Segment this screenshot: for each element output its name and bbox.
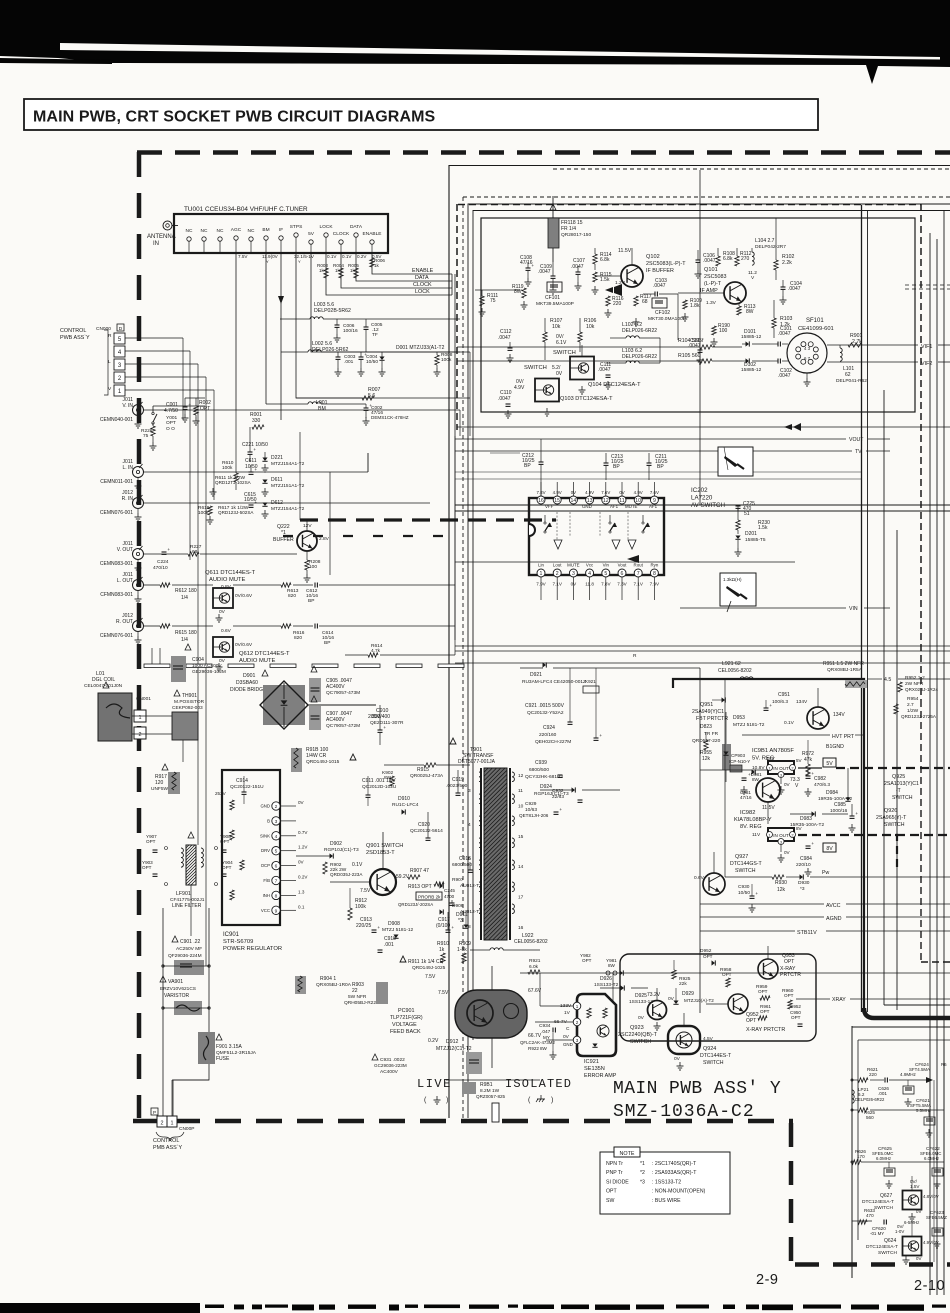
svg-text:.0047: .0047 xyxy=(498,396,511,402)
svg-text:DELP026-6R22: DELP026-6R22 xyxy=(622,354,657,360)
svg-text:BM: BM xyxy=(262,227,269,233)
svg-text:R. IN: R. IN xyxy=(122,496,134,502)
svg-text:*3: *3 xyxy=(640,1179,645,1185)
svg-text:C904: C904 xyxy=(192,657,204,663)
resistor R915 QR0025J-473A xyxy=(384,763,470,779)
svg-text:FUSE: FUSE xyxy=(216,1056,230,1062)
resistor R119 8W xyxy=(512,284,528,309)
diode D984 1SR35-100A-T2 xyxy=(818,768,852,802)
inductor L102 6.2 DELP026-6R22 xyxy=(610,322,660,338)
svg-text:Vin: Vin xyxy=(603,563,610,568)
capacitor C103 .0047 xyxy=(643,278,678,297)
svg-text:C985: C985 xyxy=(834,802,846,808)
resistor R109 1.8k xyxy=(682,298,703,321)
svg-text:7.5V: 7.5V xyxy=(360,888,371,894)
resistor R930 12k xyxy=(725,875,787,893)
diode D101 15885-12 xyxy=(741,329,770,347)
resistor R961 OPT C950 OPT xyxy=(758,1004,803,1026)
svg-text:IC921: IC921 xyxy=(584,1059,599,1065)
svg-text:4.9V: 4.9V xyxy=(634,490,643,495)
svg-text:BP: BP xyxy=(613,464,620,470)
diode D912 MTZJ12(C1-T2 xyxy=(436,1038,492,1068)
interconnect frame solid outer xyxy=(449,166,950,1119)
svg-text:+: + xyxy=(254,500,257,505)
svg-text:+: + xyxy=(769,703,772,708)
transistor Q101 2SC5083 IF AMP xyxy=(678,267,757,306)
resistor R228 100 xyxy=(304,559,321,582)
svg-text:R6: R6 xyxy=(941,1062,947,1067)
svg-text:-T: -T xyxy=(896,788,901,794)
capacitor C614 10/16 BP xyxy=(315,624,345,647)
svg-text:Vout: Vout xyxy=(618,563,628,568)
diode D981 8W xyxy=(740,769,762,800)
svg-text:B: B xyxy=(267,818,270,823)
wire video bus pair xyxy=(455,505,950,511)
resistor R114 6.8k xyxy=(593,248,612,270)
svg-text:IC202: IC202 xyxy=(691,487,708,494)
svg-text:.001: .001 xyxy=(344,359,354,365)
svg-text:17: 17 xyxy=(518,895,524,901)
svg-text:D908: D908 xyxy=(388,921,400,927)
svg-text:0.2V: 0.2V xyxy=(357,254,367,259)
svg-text:OPT: OPT xyxy=(746,1018,756,1024)
connector CN001 xyxy=(134,696,151,739)
resistor R110 100 xyxy=(711,323,731,346)
svg-text:1SS133-T2: 1SS133-T2 xyxy=(594,982,619,988)
svg-text:+: + xyxy=(811,841,814,846)
svg-text:OCP: OCP xyxy=(261,863,270,868)
svg-text:1.5V: 1.5V xyxy=(910,1184,920,1189)
resistor R911 1k 1/4 CR QRD149J-1025 xyxy=(400,956,446,980)
svg-text:0V: 0V xyxy=(298,800,305,805)
resistor R611 1k 1/2W QRD12TJ-102SA xyxy=(210,475,252,496)
svg-text:0.1: 0.1 xyxy=(298,904,305,909)
svg-text:2: 2 xyxy=(161,1121,164,1127)
capacitor C982 470/6.3 xyxy=(805,768,831,796)
svg-text:MTZJ 5181-T2: MTZJ 5181-T2 xyxy=(733,722,765,728)
svg-text:TH901: TH901 xyxy=(182,693,197,699)
svg-text:R907 47: R907 47 xyxy=(410,868,429,874)
svg-text:4.8V/0V: 4.8V/0V xyxy=(923,1194,939,1199)
svg-text:100k: 100k xyxy=(198,510,209,516)
diode D926 1SS133-T2 xyxy=(594,970,623,988)
resistor R004 1k xyxy=(333,263,344,278)
svg-text:CEMN076-001: CEMN076-001 xyxy=(100,510,133,516)
SAW filter SF101 CE41099-601 xyxy=(787,318,834,386)
capacitor C105 .0047 xyxy=(688,338,704,364)
svg-text:DELP041-R62: DELP041-R62 xyxy=(836,378,867,384)
svg-text:+: + xyxy=(451,925,454,930)
svg-text:C929: C929 xyxy=(525,801,537,807)
svg-text:1.5k: 1.5k xyxy=(758,525,768,531)
svg-text:AV SWITCH: AV SWITCH xyxy=(691,502,725,509)
svg-text:CE41099-601: CE41099-601 xyxy=(798,326,834,332)
svg-text:4.7k: 4.7k xyxy=(371,648,381,654)
svg-text:): ) xyxy=(551,1097,553,1104)
svg-text:SWITCH: SWITCH xyxy=(874,1205,893,1211)
svg-text:10k: 10k xyxy=(552,324,561,330)
bus line vertical E xyxy=(929,233,931,1295)
svg-text:BP: BP xyxy=(657,464,664,470)
transistor Q953 X-ray protector xyxy=(758,946,801,979)
svg-text:Lin: Lin xyxy=(538,563,544,568)
svg-text:VOUT: VOUT xyxy=(849,437,864,443)
resistor R633 470 xyxy=(852,1208,875,1224)
boxed net label 5V xyxy=(823,758,836,767)
svg-text:FBT PRTCTR: FBT PRTCTR xyxy=(696,716,728,722)
svg-text:OPT: OPT xyxy=(784,959,794,965)
resistor R105 560 xyxy=(457,353,742,363)
svg-text:POWER REGULATOR: POWER REGULATOR xyxy=(223,946,282,952)
capacitor C615 10/50 xyxy=(244,492,257,507)
svg-text:1k: 1k xyxy=(439,947,445,953)
svg-text:0V: 0V xyxy=(916,1256,921,1261)
diode D930 *3 xyxy=(786,874,950,892)
svg-text:5: 5 xyxy=(604,571,607,577)
audio mute Q611 box xyxy=(213,584,253,622)
svg-text:D201: D201 xyxy=(745,531,757,537)
svg-text:ANTENNA: ANTENNA xyxy=(147,234,176,240)
wire aux bus rows xyxy=(455,453,861,479)
svg-text:1-0V: 1-0V xyxy=(895,1229,904,1234)
svg-text:62: 62 xyxy=(845,372,851,378)
svg-text:LOCK: LOCK xyxy=(415,289,430,295)
svg-text:CEMN076-001: CEMN076-001 xyxy=(100,633,133,639)
arrow on bus xyxy=(455,555,795,563)
svg-text:8: 8 xyxy=(653,571,656,577)
net label B1GND xyxy=(786,744,844,750)
capacitor C917 10/100 xyxy=(436,912,454,932)
svg-text:OPT: OPT xyxy=(200,406,210,412)
capacitor C111 .0047 xyxy=(598,362,612,389)
svg-text:AU012-T2: AU012-T2 xyxy=(460,909,482,915)
svg-text:0.1V: 0.1V xyxy=(327,254,337,259)
bus line vertical A xyxy=(861,205,863,1012)
wire tuner AGC down xyxy=(235,253,237,410)
resistor R001 330 xyxy=(144,412,264,429)
svg-text:0V: 0V xyxy=(674,1056,681,1062)
svg-text:C934: C934 xyxy=(539,1023,551,1029)
svg-text:MUTE: MUTE xyxy=(567,563,580,568)
svg-text:CEL0056-8202: CEL0056-8202 xyxy=(718,668,752,674)
svg-text:1k: 1k xyxy=(350,268,356,273)
svg-text:11.5V: 11.5V xyxy=(762,805,775,811)
svg-text:DTC144ES-T: DTC144ES-T xyxy=(700,1053,732,1059)
capacitor C918 .001 xyxy=(378,936,397,952)
resistor R006 1k xyxy=(370,258,386,268)
svg-text:QRX08BJ-1R5A: QRX08BJ-1R5A xyxy=(827,667,863,673)
resistor R626 170 xyxy=(851,1149,944,1164)
svg-text:QC20122-5614: QC20122-5614 xyxy=(410,828,443,834)
resistor R612 180 1/4 xyxy=(144,583,213,601)
capacitor C611 10/50 xyxy=(245,458,258,474)
wire R.IN row xyxy=(144,502,430,504)
svg-text:6.0k: 6.0k xyxy=(529,964,539,970)
warning triangle marks power xyxy=(350,754,356,760)
capacitor C109 .0047 xyxy=(538,262,557,294)
svg-text:820: 820 xyxy=(288,593,296,599)
resistor R116 220 xyxy=(605,296,624,317)
capacitor C930 10/50 xyxy=(738,884,758,912)
svg-text:100k: 100k xyxy=(355,904,366,910)
svg-text:0V: 0V xyxy=(298,860,305,865)
net label VIF2 xyxy=(827,361,950,367)
transistor Q927 DTC144GS-T switch xyxy=(694,852,763,895)
svg-text:CN001: CN001 xyxy=(136,696,151,702)
resistor R913 OPT xyxy=(408,882,444,890)
tuner pin voltages xyxy=(238,254,382,264)
resistor R903 22 5W NFR QRH05BJ-R22 xyxy=(344,982,388,1006)
net label CLOCK xyxy=(413,282,452,288)
resistor R625 560 xyxy=(851,1108,944,1120)
svg-text:14: 14 xyxy=(518,864,524,870)
svg-text:VIF2: VIF2 xyxy=(921,361,932,367)
svg-text:7.8V: 7.8V xyxy=(536,490,545,495)
jack J012 R.OUT CEMN076-001 xyxy=(100,613,144,644)
wire tuner CLOCK down xyxy=(341,253,430,288)
svg-text:11.5V: 11.5V xyxy=(618,248,632,254)
svg-text:220: 220 xyxy=(613,301,622,307)
resistor R112 270 xyxy=(735,248,752,266)
interconnect frame dashed thin xyxy=(463,169,950,1118)
svg-text:0.7V: 0.7V xyxy=(298,830,308,835)
svg-text:8: 8 xyxy=(275,893,278,899)
svg-text:QRD123J-502SA: QRD123J-502SA xyxy=(218,510,254,515)
svg-text:22: 22 xyxy=(352,988,358,994)
svg-text:PRORB 2k: PRORB 2k xyxy=(418,895,441,900)
net label VIF1 xyxy=(827,344,950,350)
svg-text:C952: C952 xyxy=(790,1004,801,1009)
inductor L002 5.6 DELP026-5R62 xyxy=(281,341,460,353)
capacitor C931 .047 MY QFLC2AK-473M2 xyxy=(372,1052,482,1075)
switch transistor Q103 DTC124ESA-T xyxy=(514,365,613,416)
inductor L001 BM xyxy=(266,400,366,412)
svg-text:470/10: 470/10 xyxy=(153,565,168,571)
svg-text:DELP026-6R22: DELP026-6R22 xyxy=(622,328,657,334)
PWB section dashed divider xyxy=(300,518,556,521)
svg-text:270: 270 xyxy=(741,256,750,262)
svg-text:6.8k: 6.8k xyxy=(723,256,733,262)
svg-text:1.5k: 1.5k xyxy=(600,277,610,283)
svg-text:QRX05BJ-1R0A: QRX05BJ-1R0A xyxy=(316,982,352,988)
svg-text:OPT: OPT xyxy=(784,993,794,998)
svg-text:+: + xyxy=(377,925,380,930)
svg-text:2: 2 xyxy=(576,1020,579,1025)
svg-text:IN OUT: IN OUT xyxy=(773,833,789,838)
svg-text:QRD123J/-202SA: QRD123J/-202SA xyxy=(398,902,433,907)
svg-text:Q627: Q627 xyxy=(880,1193,892,1199)
svg-text:+: + xyxy=(599,733,602,738)
svg-text:R: R xyxy=(108,333,112,339)
capacitor C107 .0047 xyxy=(571,258,585,290)
svg-text:AU012-T2: AU012-T2 xyxy=(460,883,482,889)
svg-text:VARISTOR: VARISTOR xyxy=(164,993,189,999)
resistor R910 1k xyxy=(437,941,449,963)
svg-text:VIF1: VIF1 xyxy=(921,344,932,350)
transistor Q222 buffer xyxy=(273,520,330,560)
page number 2-10 xyxy=(914,1278,945,1294)
label 4.9MHz xyxy=(900,1072,917,1077)
svg-text:.0047: .0047 xyxy=(571,264,584,270)
svg-text:Q925: Q925 xyxy=(892,774,905,780)
svg-text:4.9V: 4.9V xyxy=(585,490,594,495)
posistor TH901 M.POSISTOR CEKP092-003 xyxy=(172,690,205,740)
svg-text:C914: C914 xyxy=(236,778,248,784)
svg-text:12V: 12V xyxy=(303,523,312,529)
svg-text:AC400V: AC400V xyxy=(326,684,345,690)
svg-text:11.9(0V: 11.9(0V xyxy=(262,254,279,259)
svg-text:6800/500: 6800/500 xyxy=(452,862,472,868)
svg-text:7.6V: 7.6V xyxy=(601,490,610,495)
svg-text:D930: D930 xyxy=(798,880,810,886)
svg-text:SWITCH: SWITCH xyxy=(878,1250,897,1256)
svg-text:RGP10J(C1)-T3: RGP10J(C1)-T3 xyxy=(324,847,359,853)
svg-text:AUDIO MUTE: AUDIO MUTE xyxy=(209,577,246,583)
audio mute Q612 box xyxy=(213,628,290,671)
T901 pin numbers xyxy=(468,773,524,931)
svg-text:AVCC: AVCC xyxy=(826,903,841,909)
capacitor C911 .001 1KV QC2012D-102U xyxy=(362,776,397,806)
svg-text:DTC124ESA-T: DTC124ESA-T xyxy=(866,1244,898,1250)
svg-text:0.1V: 0.1V xyxy=(352,862,363,868)
svg-text:8W: 8W xyxy=(746,309,754,315)
svg-text:3: 3 xyxy=(468,788,471,794)
svg-text:2SA965(Y)-T: 2SA965(Y)-T xyxy=(876,815,907,821)
net label XRAY xyxy=(796,997,950,1003)
capacitor C224 470/10 xyxy=(144,547,170,571)
capacitor C225 470 51 xyxy=(736,501,756,520)
svg-text:IN OUT: IN OUT xyxy=(773,766,789,771)
resistor K902 8W xyxy=(382,770,394,786)
filter CF622 SFE6.0MC 6.0MHz xyxy=(920,1146,943,1188)
svg-text:TF: TF xyxy=(372,332,378,338)
svg-text:8W: 8W xyxy=(608,963,616,968)
resistor R113 8W xyxy=(737,304,756,315)
svg-text:0.6V: 0.6V xyxy=(221,628,232,634)
svg-text:XRAY: XRAY xyxy=(832,997,846,1003)
svg-text:QRD123J-2725A: QRD123J-2725A xyxy=(901,714,937,719)
svg-text:134V: 134V xyxy=(833,712,845,718)
svg-text:TLP721F(GR): TLP721F(GR) xyxy=(390,1015,423,1021)
svg-text:7.5V: 7.5V xyxy=(425,974,436,980)
svg-text:0V/0.6V: 0V/0.6V xyxy=(235,593,253,599)
resistor R617 1k 1/2W QRD123J-502SA xyxy=(218,505,254,515)
svg-text:.0023/500: .0023/500 xyxy=(446,783,468,789)
svg-text:Q102: Q102 xyxy=(646,254,660,260)
svg-text:R911 1k 1/4 CR: R911 1k 1/4 CR xyxy=(408,959,444,965)
tuner pins NC NC NC AGC NC BM IF STPS 5V LOCK CLOCK DATA ENABLE xyxy=(186,224,382,253)
svg-text:R921: R921 xyxy=(529,958,541,964)
svg-text:6-5MHz: 6-5MHz xyxy=(904,1220,919,1225)
svg-text:1: 1 xyxy=(576,1004,579,1009)
node 285V xyxy=(308,705,381,720)
svg-text:120: 120 xyxy=(155,780,164,786)
svg-text:R615 180: R615 180 xyxy=(175,630,197,636)
resistor R008 100k xyxy=(434,352,453,376)
capacitor C914 QC20122-151U xyxy=(215,776,264,804)
svg-text:11: 11 xyxy=(518,788,523,794)
connector CN000 control xyxy=(96,324,125,396)
svg-text:D001 MTZ/J33(A1-T2: D001 MTZ/J33(A1-T2 xyxy=(396,345,445,351)
capacitor C108 47/16 xyxy=(520,255,534,286)
svg-text:IC9B1 AN7805F: IC9B1 AN7805F xyxy=(752,748,794,754)
svg-text:D910: D910 xyxy=(398,796,410,802)
svg-text:4: 4 xyxy=(275,834,278,840)
resistor R955 12k xyxy=(700,732,712,762)
resistor R917 120 UNF5W xyxy=(151,764,180,794)
svg-text:UNF5W: UNF5W xyxy=(151,786,169,792)
svg-text:MTZJ154A1-T2: MTZJ154A1-T2 xyxy=(271,461,305,467)
svg-text:100k: 100k xyxy=(441,357,452,363)
capacitor C939 6800/500 QCY32HK-681R2 xyxy=(525,722,563,780)
svg-text:22k: 22k xyxy=(679,981,687,987)
svg-text:VCC: VCC xyxy=(261,908,270,913)
resistor R616 820 xyxy=(233,624,313,641)
wire R.OUT row xyxy=(144,624,213,643)
svg-text:DRV: DRV xyxy=(261,848,270,853)
wire AC input routing xyxy=(163,820,209,1117)
svg-text:1k: 1k xyxy=(335,268,341,273)
capacitor C626 .001 xyxy=(878,1077,933,1096)
svg-text:DGL COIL: DGL COIL xyxy=(92,677,115,683)
svg-text:OPT: OPT xyxy=(146,839,156,844)
svg-text:PWB ASS`Y: PWB ASS`Y xyxy=(60,335,90,341)
inductor L921 62 CEL0056-B202 xyxy=(700,661,840,679)
8V dashed bus xyxy=(798,835,950,872)
capacitor C901 .22 AC250V QF29036-224M xyxy=(162,936,210,975)
svg-text:.0047: .0047 xyxy=(703,258,716,264)
svg-text:QRD149J-1015: QRD149J-1015 xyxy=(306,759,340,765)
capacitor Y907 Y903 OPT xyxy=(142,834,158,876)
svg-text:QC2012D-102U: QC2012D-102U xyxy=(362,784,397,790)
svg-text:MKT39.5MA100P: MKT39.5MA100P xyxy=(536,301,574,307)
svg-text:16: 16 xyxy=(538,498,544,504)
svg-text:AUDIO MUTE: AUDIO MUTE xyxy=(239,658,276,664)
svg-text:M.POSISTOR: M.POSISTOR xyxy=(174,699,205,705)
svg-text:1.3V: 1.3V xyxy=(706,300,717,306)
resistor R614 4.7k xyxy=(345,643,455,657)
jack J011 V.OUT CEMN083-001 xyxy=(100,541,144,572)
svg-text:OPT: OPT xyxy=(791,1015,801,1020)
svg-text:+: + xyxy=(755,891,758,896)
svg-text:252V: 252V xyxy=(215,791,227,796)
svg-text:+: + xyxy=(167,547,170,552)
wire V.IN row xyxy=(144,406,460,436)
svg-text:.001: .001 xyxy=(384,942,394,948)
PWB section dashed divider 2 xyxy=(283,535,455,537)
net label LOCK xyxy=(415,289,452,295)
svg-text:Rout: Rout xyxy=(634,563,644,568)
resistor R925 22k xyxy=(672,960,691,987)
svg-text:MTZJ154A1-T2: MTZJ154A1-T2 xyxy=(271,506,305,512)
dashed shield vertical xyxy=(921,700,950,962)
header band lower left thin line xyxy=(0,58,112,64)
svg-text:IF BUFFER: IF BUFFER xyxy=(646,268,674,274)
transistor Q102 2SC5083 IF BUFFER xyxy=(595,248,686,287)
svg-text:DATA: DATA xyxy=(350,224,363,230)
net label VIN xyxy=(680,606,890,612)
svg-text:12k: 12k xyxy=(702,756,711,762)
capacitor C985 1000/16 xyxy=(830,802,858,832)
svg-text:DELP042-2R7: DELP042-2R7 xyxy=(755,244,786,250)
diode D905 AU012-T2 xyxy=(440,877,483,889)
svg-text:2.2k: 2.2k xyxy=(782,260,792,266)
varistor VA901 ERZV10V621CS xyxy=(160,976,210,1015)
svg-text:SINK: SINK xyxy=(260,833,270,838)
svg-text:L921 62: L921 62 xyxy=(722,661,741,667)
svg-text:8V: 8V xyxy=(826,846,833,852)
svg-text:12: 12 xyxy=(603,498,609,504)
